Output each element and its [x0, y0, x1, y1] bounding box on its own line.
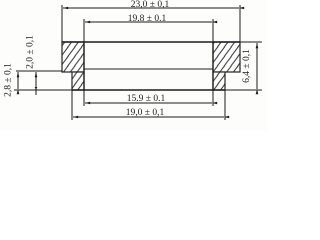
svg-text:6,4 ± 0,1: 6,4 ± 0,1 — [242, 49, 252, 83]
svg-text:19.8 ± 0.1: 19.8 ± 0.1 — [128, 14, 167, 24]
dimension 6,4 ± 0,1 line — [256, 43, 258, 89]
svg-text:2,8 ± 0,1: 2,8 ± 0,1 — [4, 63, 14, 97]
svg-text:19,0 ± 0,1: 19,0 ± 0,1 — [126, 108, 165, 118]
hatched cut section: upper-left wall — [62, 42, 84, 72]
dimension 19.8 ± 0.1 line — [85, 21, 212, 23]
right inner wall edge — [212, 42, 214, 90]
dimension 2,8 ± 0,1 line — [17, 72, 19, 89]
extension line x84 bottom — [83, 90, 85, 106]
dimension 23,0 ± 0,1 line — [63, 7, 239, 9]
extension line x225 bottom — [224, 90, 226, 120]
dimension 2,0 arrow at bottom edge — [35, 87, 38, 90]
dimension 15.9 ± 0.1 line — [85, 102, 212, 104]
hatched cut section: lower-right wall — [213, 72, 225, 90]
inner ledge edge seen through opening — [84, 68, 213, 70]
extension line y71 left — [16, 70, 62, 72]
extension line x84 top — [83, 19, 85, 42]
bottom outline edge — [14, 89, 72, 91]
top outline edge — [62, 41, 240, 43]
extension line x72 bottom — [71, 90, 73, 120]
dimension 2,0 ± 0,1 line — [35, 72, 37, 95]
left inner wall edge — [83, 42, 85, 90]
dimension 19,0 ± 0,1 line — [73, 116, 224, 118]
extension line x213 bottom — [212, 90, 214, 106]
svg-text:2,0 ± 0,1: 2,0 ± 0,1 — [26, 35, 36, 69]
hatched cut section: upper-right wall — [213, 42, 240, 72]
extension line y42 right — [240, 41, 262, 43]
extension line x213 top — [212, 19, 214, 42]
extension line right x240 — [239, 5, 241, 42]
extension line left x62 — [61, 5, 63, 42]
svg-text:23,0 ± 0,1: 23,0 ± 0,1 — [131, 0, 170, 10]
hatched cut section: lower-left wall — [72, 72, 84, 90]
svg-text:15.9 ± 0.1: 15.9 ± 0.1 — [127, 94, 166, 104]
